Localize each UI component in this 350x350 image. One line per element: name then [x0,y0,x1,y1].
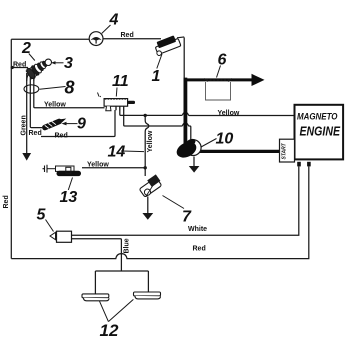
svg-text:Yellow: Yellow [147,130,154,152]
socket 2 neck tube [27,74,35,82]
svg-text:Red: Red [29,130,42,137]
wire yellow from condenser 13 to junction [82,167,145,169]
wire heavy lead to start terminal [196,150,279,153]
arrow ground below switch 7 [142,213,153,220]
svg-text:5: 5 [37,207,47,224]
headlamp socket 2 [25,58,49,80]
battery feed unit 5 [50,231,72,242]
pointer lines label 12 [100,299,134,321]
pointer label 5 [46,220,54,232]
wire blue: unit 5 down to lamp bracket [72,239,122,271]
pointer label 8 [40,87,66,90]
svg-text:2: 2 [21,40,31,57]
svg-text:START: START [282,142,288,159]
svg-text:Blue: Blue [124,238,131,253]
pointer label 4 [102,25,111,33]
svg-text:11: 11 [112,73,129,90]
arrow green ground [22,153,31,161]
lamp bar 12 left [82,294,109,301]
wire lamp feed left [94,271,96,294]
node junction dot yellow wire [144,114,147,117]
svg-text:Yellow: Yellow [218,110,240,117]
svg-text:6: 6 [218,52,227,69]
wire from switch 11 pin 4 to solenoid 10 with hop [124,110,191,140]
pointer label 2 [29,54,35,61]
main switch 1 [153,34,182,56]
pointer label 11 [115,88,118,97]
pointer label 6 [217,66,221,78]
engine terminal right [307,162,311,167]
harness ring 8 [24,85,39,93]
svg-text:Red: Red [13,62,26,69]
lamp 4 indicator circle [89,32,103,46]
node junction dot condenser wire [144,166,147,169]
wire ground lead below switch 7 [147,197,149,214]
wire red from lamp 2 down to connector 9 [30,74,42,128]
svg-text:13: 13 [60,189,78,206]
start terminal box [280,139,295,162]
svg-text:10: 10 [216,131,234,148]
wire left frame red vertical [10,39,12,258]
svg-text:Red: Red [3,195,10,208]
wire heavy lead vertical [183,78,187,145]
svg-text:Red: Red [121,32,134,39]
wire ground lead below solenoid 10 [193,157,195,167]
svg-text:8: 8 [65,78,75,98]
starter solenoid 10 [174,137,201,160]
svg-text:3: 3 [64,55,73,72]
node junction dot on left frame [11,66,14,69]
wire lamp feed right [147,271,149,292]
lamp bar 12 right [134,292,161,299]
pointer label 10 [201,139,217,148]
wire stub switch 1 to heavy lead [177,36,184,39]
svg-text:9: 9 [77,116,86,133]
svg-text:White: White [188,226,207,233]
wire yellow from lamp 2 to switch 11 [34,75,105,108]
svg-text:ENGINE: ENGINE [300,124,341,139]
svg-text:12: 12 [100,321,119,340]
bullet connector 9 [41,116,67,131]
ignition switch 11 body [98,93,136,111]
svg-text:MAGNETO: MAGNETO [297,111,338,122]
svg-text:7: 7 [182,209,192,226]
wire lamp bracket horizontal [95,270,148,272]
svg-text:14: 14 [108,144,126,161]
condenser 13 [43,165,82,176]
wire yellow switch 11 to engine with hop over heavy lead [120,110,295,116]
kill switch 7 [138,174,163,197]
engine terminal left [297,162,301,167]
arrow pointer from label 9 [66,123,78,125]
pointer label 13 [68,178,72,191]
wire stub from frame dot to lamp 2 [12,67,28,69]
wire green vertical from lamp 2 [26,73,28,153]
wire red from connector 9 to switch 11 pin [41,110,115,137]
wire bottom red: frame to engine terminal with hop over blue [11,166,309,258]
wire top red: left corner to lamp 4 [11,38,89,40]
engine box [295,105,344,160]
pointer label 7 [163,196,185,209]
svg-text:Red: Red [55,132,68,139]
svg-text:Green: Green [20,115,27,135]
svg-text:4: 4 [109,12,119,29]
wire heavy branch to arrow 6 [184,78,252,81]
wire white: unit 5 to engine terminal [72,166,299,235]
arrow ground below solenoid 10 [189,166,200,173]
svg-text:Yellow: Yellow [44,102,66,109]
arrow heavy right [252,74,265,86]
connector block 6 dashed [206,82,231,100]
arrow pointer from label 3 [55,62,64,64]
svg-text:1: 1 [152,68,161,85]
pointer label 14 [121,150,144,153]
svg-text:Yellow: Yellow [87,162,109,169]
bulb 3 on socket 2 [45,59,51,65]
wire yellow vertical 14 with jog around crossing [145,115,149,176]
pointer label 1 [157,54,162,69]
wire thin lead from switch 1 down [183,37,185,78]
svg-text:Red: Red [193,246,206,253]
wire top red: lamp 4 to switch 1 [103,38,161,40]
